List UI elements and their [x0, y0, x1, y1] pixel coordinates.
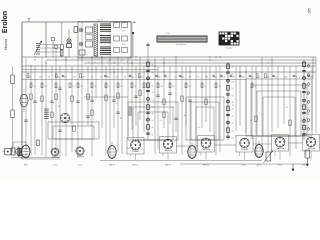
svg-text:50: 50 [231, 95, 233, 97]
svg-text:5k: 5k [307, 86, 309, 88]
svg-text:50: 50 [151, 72, 153, 74]
wire right corner [312, 57, 314, 79]
svg-text:ECH11: ECH11 [132, 164, 139, 166]
wire bottom mid [100, 160, 262, 162]
wire osc link [60, 22, 63, 57]
svg-text:5: 5 [108, 62, 109, 64]
wire drops to tube row [26, 96, 296, 158]
svg-text:Kontakte: Kontakte [225, 46, 232, 49]
svg-text:1k: 1k [59, 86, 61, 88]
svg-text:5k: 5k [307, 114, 309, 116]
svg-text:5k: 5k [231, 130, 233, 132]
tuning coil L2 [44, 109, 49, 119]
loop box stage3 [186, 97, 224, 140]
svg-text:K M L: K M L [166, 33, 171, 35]
switch wafer grid [219, 32, 239, 45]
svg-text:50: 50 [231, 81, 233, 83]
svg-text:5k: 5k [135, 86, 137, 88]
svg-text:3: 3 [95, 62, 96, 64]
svg-text:v.unt.: v.unt. [53, 163, 58, 166]
coil pack outline [78, 22, 131, 59]
svg-text:1k: 1k [81, 86, 83, 88]
svg-text:Minerva: Minerva [4, 39, 8, 51]
svg-text:50: 50 [255, 86, 257, 88]
aerial resistor [11, 66, 14, 110]
wire bottom left [11, 157, 60, 159]
socket box drop wires [131, 151, 312, 160]
svg-text:2k: 2k [231, 73, 233, 75]
grid resistor [37, 140, 39, 146]
socket view D [160, 137, 177, 154]
svg-text:0,5: 0,5 [160, 120, 163, 122]
top mid dot [132, 32, 134, 57]
switch table caption [176, 43, 187, 46]
svg-text:Schalterstell.: Schalterstell. [176, 43, 187, 46]
svg-text:5k: 5k [231, 67, 233, 69]
svg-text:2: 2 [88, 62, 89, 64]
svg-text:47k: 47k [72, 77, 75, 79]
svg-text:5k: 5k [48, 77, 50, 79]
svg-text:50: 50 [120, 118, 122, 120]
svg-text:EM11: EM11 [302, 164, 308, 166]
coil pack labels [122, 31, 126, 47]
ladder companion x308 [307, 65, 310, 131]
svg-text:EBF11: EBF11 [165, 164, 172, 166]
svg-text:47k: 47k [181, 77, 184, 79]
svg-text:0,1: 0,1 [307, 135, 310, 137]
band switch contact table [157, 36, 207, 42]
svg-text:5k: 5k [231, 102, 233, 104]
socket base hatch B [77, 156, 84, 158]
wire bus y72 [22, 71, 316, 73]
svg-text:1k: 1k [109, 86, 111, 88]
tube type labels [24, 163, 308, 166]
wire junction dots [30, 56, 268, 72]
component ladder x304 [302, 60, 310, 140]
svg-text:50: 50 [95, 86, 97, 88]
IF coil [129, 107, 133, 115]
svg-text:5k: 5k [231, 109, 233, 111]
svg-text:50: 50 [219, 86, 221, 88]
socket S1 view [60, 113, 70, 123]
svg-text:2k: 2k [151, 85, 153, 87]
svg-text:30: 30 [58, 106, 60, 108]
coil pack top numbers [97, 20, 103, 22]
IF transformer windings [100, 24, 111, 54]
svg-text:50: 50 [231, 88, 233, 90]
svg-text:185: 185 [308, 8, 312, 14]
vertical interconnect wires [26, 22, 316, 151]
svg-text:Erolon: Erolon [2, 11, 9, 33]
loop box output [246, 79, 312, 136]
mains dropper [305, 150, 310, 167]
wire bottom long [22, 158, 60, 160]
wire top bus [22, 21, 131, 23]
svg-text:5k: 5k [151, 127, 153, 129]
resistor R1 [60, 50, 63, 56]
ladder feed cap [146, 42, 149, 60]
socket base hatch A [52, 157, 59, 159]
wire bus y66 [22, 65, 316, 67]
padder capacitor C2 [54, 45, 58, 57]
scattered value labels [58, 103, 288, 129]
svg-text:v.unt.: v.unt. [78, 163, 83, 166]
svg-text:EFM11: EFM11 [203, 164, 210, 166]
model name label Erolon [2, 11, 9, 33]
wire bus y57 [22, 56, 316, 58]
svg-text:5k: 5k [73, 86, 75, 88]
coil pack hatched core [94, 24, 98, 57]
wire y97 partial [84, 96, 128, 98]
svg-text:5k: 5k [58, 77, 60, 79]
svg-text:4k: 4k [172, 107, 174, 109]
svg-text:50: 50 [151, 107, 153, 109]
loudspeaker [11, 146, 19, 156]
wire bus y60 [46, 59, 316, 61]
link mark [133, 21, 136, 23]
svg-text:2M: 2M [232, 77, 235, 79]
svg-text:1k: 1k [34, 86, 36, 88]
svg-text:50: 50 [232, 105, 234, 107]
svg-text:2k: 2k [151, 65, 153, 67]
cathode resistor [58, 126, 75, 132]
rectifier tube envelope [255, 141, 263, 157]
svg-text:a b c: a b c [122, 31, 126, 33]
oscillator coil L1 [34, 41, 42, 55]
output transformer [18, 148, 22, 156]
svg-text:5k: 5k [307, 121, 309, 123]
svg-text:0,1: 0,1 [45, 86, 48, 88]
coil taps [40, 45, 60, 53]
socket view E [198, 136, 215, 153]
bias resistor row [30, 83, 257, 88]
svg-text:8k: 8k [251, 77, 253, 79]
svg-text:50: 50 [307, 107, 309, 109]
antenna tick [28, 19, 31, 23]
socket view H [303, 135, 320, 152]
oscillator trimmer group [79, 27, 93, 55]
component ladder x148 [146, 60, 154, 140]
svg-text:7: 7 [121, 62, 122, 64]
volume potentiometer [264, 151, 274, 163]
svg-text:8k: 8k [184, 115, 186, 117]
svg-text:0,1: 0,1 [173, 86, 176, 88]
svg-text:50: 50 [205, 86, 207, 88]
svg-text:50: 50 [151, 92, 153, 94]
component value label row [27, 74, 313, 79]
svg-text:2k: 2k [90, 125, 92, 127]
grid caption [225, 46, 232, 49]
terminal box [3, 148, 11, 155]
wire bus y79 [22, 79, 246, 81]
socket view G [272, 135, 289, 152]
svg-text:0,3: 0,3 [286, 107, 289, 109]
svg-text:0,1: 0,1 [151, 79, 154, 81]
svg-text:0,1: 0,1 [151, 99, 154, 101]
svg-text:2k: 2k [231, 116, 233, 118]
wire bottom right [180, 163, 308, 165]
svg-text:0,1: 0,1 [198, 127, 201, 129]
socket view C [127, 138, 144, 155]
svg-text:2M: 2M [205, 77, 208, 79]
svg-text:0,1: 0,1 [116, 103, 119, 105]
svg-text:47k: 47k [131, 77, 134, 79]
chassis arrow [292, 164, 295, 172]
svg-text:d e f: d e f [122, 44, 126, 46]
svg-text:1M: 1M [310, 77, 313, 79]
svg-text:2k: 2k [231, 123, 233, 125]
wire left frame [21, 22, 23, 159]
socket view A [51, 148, 59, 156]
loop box stage2 [128, 102, 178, 140]
svg-text:2M: 2M [106, 77, 109, 79]
wire bus y63 [84, 62, 316, 64]
mid-field resistors and capacitors [24, 88, 291, 126]
svg-text:0,1: 0,1 [69, 120, 72, 122]
svg-text:EBF11: EBF11 [109, 164, 116, 166]
svg-text:1k: 1k [161, 86, 163, 88]
svg-text:2k: 2k [151, 135, 153, 137]
brand label Minerva [4, 39, 8, 51]
svg-text:1M: 1M [241, 77, 244, 79]
wave trap coil [11, 110, 22, 152]
component ladder x228 [226, 62, 233, 140]
switch table top label [166, 33, 171, 35]
wire tube row link [127, 143, 303, 148]
svg-text:5k: 5k [295, 77, 297, 79]
tube V4 envelope [108, 142, 116, 158]
coil pack bottom label row [82, 62, 129, 64]
tube V6 envelope [188, 142, 196, 158]
tube V2 envelope [22, 142, 30, 158]
tube V1 envelope [20, 94, 28, 112]
page number 185 [308, 8, 312, 14]
svg-text:5k: 5k [250, 120, 252, 122]
loop box stage1 [48, 122, 99, 139]
svg-text:5k: 5k [258, 77, 260, 79]
wire x46 upper [45, 22, 47, 57]
svg-text:0,1: 0,1 [189, 86, 192, 88]
svg-text:1M: 1M [39, 77, 42, 79]
svg-text:2k: 2k [151, 114, 153, 116]
trimmer C3 [67, 29, 71, 43]
trimmer C4 [67, 27, 78, 58]
trimmer capacitor blocks [114, 23, 128, 53]
svg-text:510 4 7: 510 4 7 [97, 20, 103, 22]
svg-text:50: 50 [231, 138, 233, 140]
svg-text:8k: 8k [124, 77, 126, 79]
padder capacitor C1 [51, 37, 55, 57]
svg-text:5k: 5k [121, 86, 123, 88]
wire bus y69 partial [22, 69, 158, 71]
svg-text:0,1: 0,1 [151, 120, 154, 122]
wire speaker top [13, 142, 26, 148]
socket view B [76, 147, 84, 155]
socket view F [236, 136, 253, 153]
